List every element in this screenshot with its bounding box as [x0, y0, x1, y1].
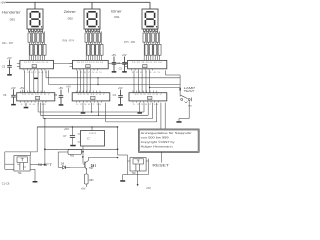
node shift relay junction	[44, 164, 46, 166]
wire shift trigger vertical from bus	[44, 119, 46, 150]
IC IC2 bottom pin stubs	[76, 69, 78, 71]
node shift trigger left	[44, 148, 46, 150]
svg-text:13 12 11 10 9 15 14: 13 12 11 10 9 15 14	[132, 62, 162, 64]
resistor bank R75 - R81 row 2 (with feed-through wires)	[145, 31, 147, 44]
wires IC4 outputs down to reset (pass under note box)	[160, 103, 162, 129]
ground pin mark on IC1 column	[34, 78, 38, 80]
svg-text:+5V: +5V	[81, 187, 86, 191]
wire display D91 anode to +5V rail	[149, 2, 151, 9]
svg-text:C1-C6: C1-C6	[2, 182, 10, 186]
wire reset stub under note	[160, 151, 162, 162]
IC IC2 left pin stubs	[70, 62, 73, 64]
resistor bank R68 - R74 row 2 (with feed-through wires)	[87, 31, 89, 44]
wires decoder IC3 outputs to counter IC4	[133, 70, 135, 92]
wire +5V to capacitor C4	[120, 90, 122, 96]
svg-text:1 2 6 7 3 4 5: 1 2 6 7 3 4 5	[76, 72, 102, 74]
resistor bank R68 - R74 row 1 (with feed-through wires)	[85, 31, 87, 33]
wire IC7 top to +5V line	[91, 127, 93, 131]
svg-text:+5V: +5V	[146, 186, 151, 190]
wire link between chain buses	[97, 78, 99, 85]
wire capacitor C4 to ground	[120, 97, 122, 104]
relay K2 contacts	[135, 164, 137, 171]
wire decoder chain IC2-IC3	[108, 62, 127, 64]
svg-text:13 12 11 10 9 15 14: 13 12 11 10 9 15 14	[77, 62, 104, 64]
svg-text:R68 - R74: R68 - R74	[63, 39, 75, 42]
svg-text:1 2 6 7 3 4 5: 1 2 6 7 3 4 5	[23, 72, 47, 74]
wire +5V to C7/IC7 node	[71, 127, 73, 136]
ground IC6	[24, 107, 29, 109]
wire +5V to capacitor C2	[124, 57, 126, 63]
wire capacitor C1 to ground	[113, 64, 115, 71]
display D92 segments	[87, 11, 100, 27]
ground lamp test	[176, 121, 181, 123]
wire +5V to capacitor C3	[9, 60, 11, 66]
svg-text:+5V: +5V	[0, 1, 5, 5]
ground shift	[33, 181, 38, 183]
wire bus carry 1	[37, 103, 39, 112]
svg-text:13 12 11 10 9 15 14: 13 12 11 10 9 15 14	[24, 62, 49, 64]
wire relay K2 bottom to +5V	[137, 171, 139, 184]
wire lamp-test bus	[48, 70, 50, 84]
wire IC4 ground pin	[139, 103, 141, 113]
wire capacitor C2 to ground	[124, 64, 126, 71]
ground C7	[70, 145, 75, 147]
svg-text:Copyright ©1997 by: Copyright ©1997 by	[141, 140, 176, 144]
IC IC2 designator box	[86, 65, 90, 68]
capacitor C7	[70, 135, 75, 137]
decoder IC IC2 74LS247 body	[73, 60, 109, 68]
relay K2 coil	[133, 159, 144, 164]
wire +5V to capacitor C5	[60, 90, 62, 96]
relay K2 box (RESET)	[130, 158, 146, 171]
resistor bank R75 - R81 row 1 (with feed-through wires)	[143, 31, 145, 33]
wire relay K1 bottom to ground	[30, 168, 35, 170]
ground under C5	[59, 104, 64, 106]
svg-text:C7: C7	[63, 134, 67, 138]
IC IC4 designator box	[148, 96, 152, 99]
IC IC3 left pin stubs	[125, 62, 128, 64]
svg-text:1 2 3 6 7 10: 1 2 3 6 7 10	[133, 104, 159, 106]
wire shift loop left	[4, 152, 6, 169]
svg-text:74121: 74121	[89, 133, 98, 135]
svg-text:D92: D92	[68, 16, 74, 20]
ground under C4	[118, 104, 123, 106]
svg-text:1 2 3 6 7 10: 1 2 3 6 7 10	[20, 104, 46, 106]
wires decoder IC1 outputs to counter IC6	[24, 70, 26, 92]
wire +5V to capacitor C6	[13, 89, 15, 95]
display D93 pin row	[29, 29, 31, 31]
svg-text:SHIFT: SHIFT	[38, 163, 53, 167]
svg-text:Anzeigeplatine für Stoppuhr: Anzeigeplatine für Stoppuhr	[141, 131, 192, 135]
decoder IC IC3 74LS247 body	[128, 60, 167, 68]
svg-text:R92: R92	[70, 156, 75, 158]
transistor T92 emitter with arrow	[85, 166, 86, 169]
wire relay K1 right terminal to node	[30, 164, 45, 166]
svg-text:R93: R93	[89, 180, 94, 182]
ground under C2	[122, 71, 127, 73]
svg-text:Hunderter: Hunderter	[2, 11, 22, 15]
transistor T92 base bar	[84, 162, 86, 168]
capacitor C4	[118, 95, 123, 97]
decoder IC IC1 74LS247 body	[20, 60, 54, 68]
svg-text:C6: C6	[3, 93, 7, 97]
ground under C6	[11, 104, 16, 106]
svg-text:12 9 8 11 2 6 7: 12 9 8 11 2 6 7	[22, 94, 50, 96]
wire capacitor C5 to ground	[60, 97, 62, 104]
ground under C1	[112, 71, 117, 73]
wire relay K1 left terminals	[5, 163, 14, 165]
svg-text:R61 - R67: R61 - R67	[2, 42, 14, 45]
wire lamp-test IC3 branch	[150, 86, 181, 88]
ground IC5	[81, 112, 86, 114]
wire reset feed vertical	[117, 127, 119, 155]
transistor T92 collector	[85, 161, 88, 163]
wire D8 to base	[70, 166, 85, 168]
counter IC IC4 74LS90 body	[129, 93, 167, 101]
IC7 left pin stubs	[78, 133, 81, 135]
IC IC1 designator box	[32, 65, 36, 68]
svg-text:TEST: TEST	[184, 89, 195, 93]
wire bus carry 2	[39, 103, 41, 116]
IC IC1 left pin stubs	[17, 62, 20, 64]
wire IC6 ground pin	[25, 103, 27, 107]
svg-text:Einer: Einer	[111, 10, 123, 14]
resistor R92	[68, 150, 82, 155]
wire shift feed from +5V line	[36, 127, 38, 152]
wire R93 down	[85, 184, 87, 187]
wire IC7 output down	[82, 146, 84, 164]
svg-text:von 000 bis 999: von 000 bis 999	[141, 136, 170, 140]
node R92/IC7	[82, 151, 84, 153]
IC7 monoflop body	[81, 131, 105, 147]
wire display D93 anode to +5V rail	[34, 2, 36, 9]
wire left branch down to D8	[57, 152, 59, 167]
wire lamp test drop	[179, 75, 181, 97]
diode D9 marks	[91, 164, 93, 167]
counter IC IC5 74LS90 body	[72, 93, 110, 101]
relay K1 coil	[17, 157, 28, 163]
wire +5V rail	[6, 1, 151, 3]
wire IC3 lamp-test exit	[165, 70, 167, 75]
svg-text:D93: D93	[10, 17, 16, 21]
resistor R93	[85, 174, 89, 184]
wire R92 right	[82, 151, 84, 153]
node shift trigger right	[117, 148, 119, 150]
IC IC3 bottom pin stubs	[131, 69, 133, 71]
wire reset feed to loop	[118, 154, 128, 156]
svg-text:1 2 3 6 7 10: 1 2 3 6 7 10	[76, 104, 102, 106]
IC IC1 bottom pin stubs	[23, 69, 25, 71]
svg-text:D91: D91	[114, 15, 120, 19]
resistor bank R61 - R67 row 2 (with feed-through wires)	[30, 31, 32, 44]
svg-text:C5: C5	[54, 93, 58, 97]
svg-text:C4: C4	[113, 93, 117, 97]
svg-text:T92: T92	[89, 168, 94, 170]
wire reset loop	[127, 155, 129, 175]
IC IC5 top pin stubs	[75, 91, 77, 93]
IC IC4 top pin stubs	[132, 91, 134, 93]
capacitor C5	[59, 95, 64, 97]
display D92 pin row	[86, 29, 88, 31]
counter IC IC6 74LS90 body	[17, 93, 55, 101]
note box frame	[139, 129, 200, 152]
wire emitter to R93	[85, 169, 87, 174]
svg-text:T91: T91	[18, 172, 23, 175]
diode D8	[58, 166, 62, 168]
wire switch to ground	[188, 100, 190, 118]
display D91 pin row	[144, 29, 146, 31]
svg-text:T92: T92	[132, 172, 137, 175]
svg-text:Zehner: Zehner	[64, 10, 77, 14]
relay K1 contacts	[19, 163, 21, 171]
ground reset	[120, 180, 125, 182]
wire display D92 anode to +5V rail	[91, 2, 93, 9]
node lamp test	[180, 88, 181, 91]
wire bus carry 4	[105, 103, 107, 122]
wire reset ground branch	[123, 174, 128, 176]
svg-text:Holger Heinemann: Holger Heinemann	[141, 144, 174, 148]
IC IC6 top pin stubs	[20, 91, 22, 93]
display D91 segments	[145, 11, 158, 27]
resistor bank R61 - R67 row 1 (with feed-through wires)	[28, 31, 30, 33]
wire capacitor C3 to ground	[9, 67, 11, 74]
display D91 Einer 7-segment body	[142, 9, 158, 29]
switch S91 lamp test	[181, 98, 183, 100]
wire shift coil drop	[29, 152, 31, 156]
wire bus carry 3	[42, 103, 44, 119]
IC IC3 designator box	[143, 65, 147, 68]
ground under C3	[7, 74, 12, 76]
wire shift trigger to relay node	[44, 149, 46, 164]
wire carry chain upper	[45, 70, 47, 77]
wires decoder IC2 outputs to counter IC5	[77, 70, 79, 92]
capacitor C3	[7, 65, 12, 67]
capacitor C1	[112, 62, 117, 64]
display D92 Zehner 7-segment body	[84, 9, 100, 29]
node junction +5V/C7	[72, 126, 74, 128]
wire +5V distribution line	[37, 126, 117, 128]
wire shift loop top	[5, 151, 37, 153]
capacitor C6	[11, 94, 16, 96]
wire C7 to ground	[71, 137, 73, 144]
svg-text:RESET: RESET	[152, 163, 169, 167]
wire relay K2 stubs	[128, 160, 131, 162]
svg-text:12 9 8 11 2 6 7: 12 9 8 11 2 6 7	[77, 94, 105, 96]
svg-text:+5V: +5V	[64, 127, 69, 131]
IC IC4 bottom pin stubs	[132, 101, 134, 103]
IC IC5 bottom pin stubs	[75, 101, 77, 103]
IC IC6 bottom pin stubs	[20, 101, 22, 103]
wire IC5 ground pin	[82, 103, 84, 113]
svg-text:C2: C2	[119, 67, 123, 71]
wire IC5 outputs to buses	[91, 103, 93, 112]
IC IC6 designator box	[35, 96, 39, 99]
svg-text:R75 - R81: R75 - R81	[124, 41, 136, 44]
wire capacitor C6 to ground	[13, 97, 15, 104]
IC IC5 designator box	[91, 96, 95, 99]
wire decoder chain IC1-IC2	[54, 62, 73, 64]
svg-text:C1: C1	[117, 61, 121, 65]
wire shift trigger horizontal	[45, 148, 118, 150]
svg-text:C3: C3	[2, 65, 6, 69]
ground IC4	[137, 112, 142, 114]
polarity mark on IC7 output	[82, 156, 84, 158]
display D93 segments	[30, 11, 43, 27]
display D93 Hunderter 7-segment body	[27, 9, 43, 29]
capacitor C2	[122, 62, 127, 64]
wire +5V to capacitor C1	[113, 57, 115, 63]
svg-text:12 9 8 11 2 6 7: 12 9 8 11 2 6 7	[134, 94, 162, 96]
wire collector to reset feed	[88, 157, 117, 159]
wire R92 left	[58, 151, 68, 153]
relay K1 box (SHIFT)	[14, 156, 30, 171]
